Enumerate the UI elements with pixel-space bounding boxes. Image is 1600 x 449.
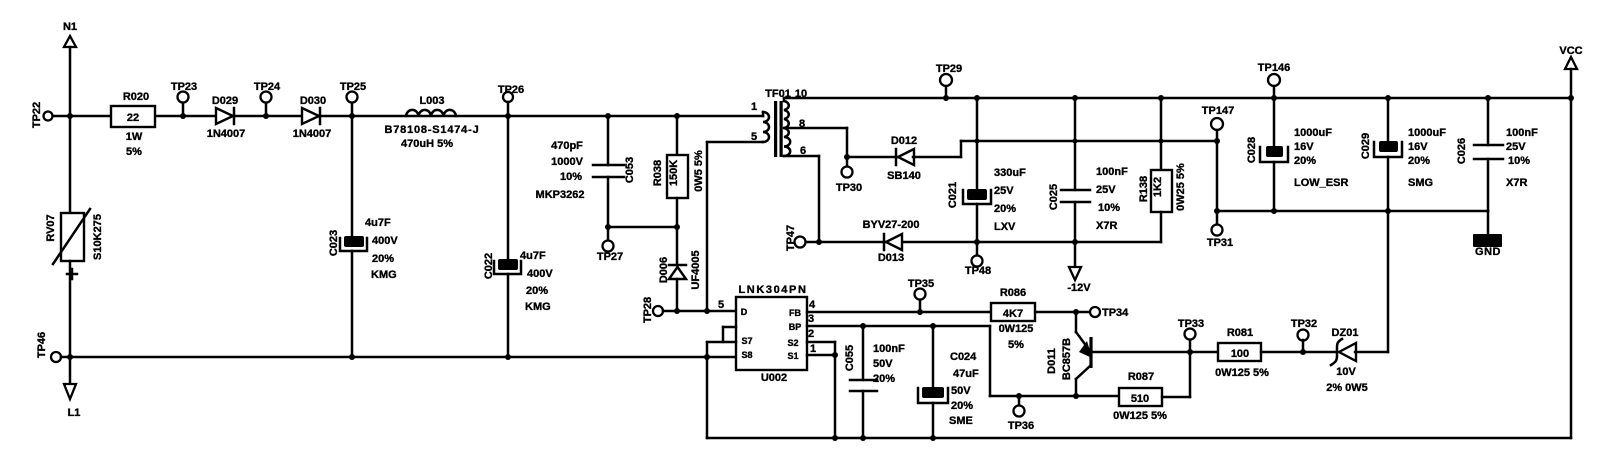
svg-text:R020: R020 [123, 91, 149, 103]
svg-text:20%: 20% [994, 203, 1016, 215]
svg-text:150K: 150K [668, 160, 680, 186]
svg-text:GND: GND [1475, 246, 1501, 258]
svg-text:TP34: TP34 [1102, 307, 1129, 319]
svg-text:TP36: TP36 [1008, 420, 1034, 432]
svg-text:C028: C028 [1246, 137, 1258, 163]
capacitor C022 4u7F 400V [483, 116, 553, 357]
svg-text:TP32: TP32 [1291, 318, 1317, 330]
svg-text:47uF: 47uF [953, 368, 979, 380]
test point TP26 [498, 84, 524, 119]
svg-text:TP30: TP30 [836, 182, 862, 194]
svg-text:0W5 5%: 0W5 5% [693, 150, 705, 192]
svg-text:0W25 5%: 0W25 5% [1175, 163, 1187, 211]
test point TP32 [1291, 318, 1317, 352]
svg-text:X7R: X7R [1096, 220, 1117, 232]
node N1 [63, 21, 77, 47]
inductor L003 B78108-S1474-J 470uH [385, 95, 480, 150]
svg-text:D030: D030 [300, 95, 326, 107]
svg-text:0W125 5%: 0W125 5% [1113, 410, 1167, 422]
svg-text:BYV27-200: BYV27-200 [863, 219, 920, 231]
svg-text:C025: C025 [1048, 184, 1060, 210]
svg-text:100nF: 100nF [873, 343, 905, 355]
svg-text:SMG: SMG [1408, 177, 1433, 189]
wire S2 S1 leads [807, 342, 838, 438]
svg-text:TP146: TP146 [1258, 62, 1290, 74]
svg-text:0W125 5%: 0W125 5% [1215, 367, 1269, 379]
svg-text:C026: C026 [1456, 138, 1468, 164]
svg-text:470uH 5%: 470uH 5% [401, 138, 453, 150]
capacitor C029 1000uF SMG [1360, 98, 1446, 211]
diode D012 SB140 [847, 135, 961, 182]
diode D013 BYV27-200 [863, 219, 920, 264]
svg-text:1: 1 [810, 343, 816, 355]
svg-text:1000uF: 1000uF [1408, 127, 1446, 139]
capacitor C025 100nF X7R [1048, 98, 1128, 242]
capacitor C024 47uF SME [918, 326, 979, 438]
capacitor C053 470pF MKP3262 [536, 113, 636, 227]
svg-text:MKP3262: MKP3262 [536, 189, 585, 201]
wire secondary pin6 tap [784, 156, 819, 242]
svg-text:400V: 400V [372, 235, 398, 247]
wire transformer pin5 [707, 142, 763, 311]
svg-text:10%: 10% [1098, 202, 1120, 214]
test point TP30 [836, 154, 862, 194]
svg-text:SME: SME [949, 415, 973, 427]
test point TP28 [642, 297, 663, 323]
svg-text:C055: C055 [844, 345, 856, 371]
test point TP46 [36, 332, 61, 362]
capacitor C021 330uF 25V LXV [947, 98, 1026, 242]
svg-text:5: 5 [718, 299, 724, 311]
svg-text:2: 2 [808, 328, 814, 340]
test point TP25 [340, 81, 366, 119]
svg-text:S1: S1 [787, 351, 798, 361]
svg-text:0W125: 0W125 [999, 323, 1034, 335]
svg-text:TP29: TP29 [936, 63, 962, 75]
svg-text:20%: 20% [1294, 155, 1316, 167]
svg-text:400V: 400V [527, 268, 553, 280]
wire R081 to DZ01 [1261, 349, 1336, 355]
zener diode DZ01 10V [1326, 327, 1388, 394]
wire secondary pin8 tap [784, 128, 847, 157]
svg-text:1W: 1W [126, 131, 143, 143]
svg-text:U002: U002 [761, 372, 787, 384]
transformer TF01 [751, 88, 807, 157]
wire -12V rail [806, 239, 1161, 245]
svg-text:N1: N1 [63, 21, 77, 33]
wire bottom rail [707, 435, 1571, 441]
svg-text:TP48: TP48 [965, 265, 991, 277]
svg-text:FB: FB [789, 308, 801, 318]
svg-text:1K2: 1K2 [1152, 177, 1164, 197]
svg-text:R081: R081 [1227, 327, 1253, 339]
wire D012 output rail [961, 139, 1218, 158]
svg-text:TP46: TP46 [36, 332, 48, 358]
svg-text:TP22: TP22 [31, 102, 43, 128]
resistor R087 510 [1113, 371, 1167, 422]
svg-text:C023: C023 [328, 230, 340, 256]
test point TP23 [171, 81, 197, 119]
svg-text:5%: 5% [1008, 339, 1024, 351]
svg-text:25V: 25V [1506, 141, 1526, 153]
svg-text:C021: C021 [947, 182, 959, 208]
svg-text:50V: 50V [873, 358, 893, 370]
svg-text:22: 22 [127, 112, 139, 124]
capacitor C023 4u7F 400V [328, 116, 398, 357]
svg-text:10%: 10% [560, 171, 582, 183]
test point TP36 [1008, 396, 1034, 432]
wire BP lower node [990, 393, 1119, 399]
svg-text:5%: 5% [126, 146, 142, 158]
svg-text:S8: S8 [741, 350, 752, 360]
svg-text:3: 3 [808, 313, 814, 325]
svg-text:LOW_ESR: LOW_ESR [1294, 177, 1348, 189]
test point TP24 [254, 81, 281, 119]
varistor RV07 S10K275 [45, 116, 104, 357]
svg-text:R087: R087 [1128, 371, 1154, 383]
svg-text:16V: 16V [1294, 141, 1314, 153]
wire DZ01 to ground rail [1387, 211, 1390, 352]
svg-text:1N4007: 1N4007 [207, 128, 246, 140]
resistor R081 100 [1215, 327, 1269, 379]
svg-text:BC857B: BC857B [1061, 338, 1073, 380]
test point TP33 [1178, 318, 1204, 340]
svg-text:D013: D013 [878, 252, 904, 264]
svg-text:L003: L003 [419, 95, 444, 107]
test point TP48 [965, 242, 991, 277]
svg-text:D011: D011 [1046, 348, 1058, 374]
svg-text:16V: 16V [1408, 141, 1428, 153]
resistor R020 [111, 91, 155, 158]
wire FB node [807, 309, 1090, 315]
svg-text:100: 100 [1231, 348, 1249, 360]
svg-text:10%: 10% [1508, 155, 1530, 167]
test point TP22 [31, 102, 53, 128]
svg-text:TP31: TP31 [1207, 237, 1233, 249]
svg-text:470pF: 470pF [551, 140, 583, 152]
svg-text:SB140: SB140 [887, 170, 921, 182]
svg-text:20%: 20% [1408, 155, 1430, 167]
svg-text:50V: 50V [951, 385, 971, 397]
resistor R038 150K [652, 113, 705, 227]
svg-text:L1: L1 [68, 407, 81, 419]
test point TP31 [1207, 211, 1233, 249]
svg-text:UF4005: UF4005 [690, 250, 702, 289]
svg-text:4u7F: 4u7F [520, 250, 546, 262]
node -12V [1067, 242, 1091, 294]
svg-text:DZ01: DZ01 [1332, 327, 1359, 339]
svg-text:KMG: KMG [371, 269, 397, 281]
IC U002 LNK304PN [718, 284, 816, 384]
resistor R086 4K7 [991, 287, 1035, 351]
wire N1 vertical [67, 47, 73, 119]
wire VCC top rail [784, 95, 1571, 101]
test point TP47 [785, 225, 806, 251]
test point TP35 [908, 278, 934, 312]
svg-text:R038: R038 [652, 160, 664, 186]
capacitor C055 100nF [844, 326, 905, 438]
svg-text:LNK304PN: LNK304PN [738, 284, 807, 296]
svg-text:B78108-S1474-J: B78108-S1474-J [385, 124, 480, 136]
svg-text:1000uF: 1000uF [1294, 127, 1332, 139]
svg-text:2% 0W5: 2% 0W5 [1326, 382, 1368, 394]
svg-text:330uF: 330uF [994, 167, 1026, 179]
svg-text:10V: 10V [1336, 366, 1356, 378]
test point TP27 [597, 227, 623, 263]
transistor D011 BC857B [1046, 312, 1093, 396]
diode D030 1N4007 [293, 95, 332, 140]
svg-text:510: 510 [1131, 393, 1149, 405]
diode D006 UF4005 [658, 227, 702, 311]
svg-text:100nF: 100nF [1096, 166, 1128, 178]
svg-text:R086: R086 [1000, 287, 1026, 299]
svg-text:C053: C053 [624, 157, 636, 183]
svg-text:D029: D029 [212, 95, 238, 107]
wire bottom return rail [61, 354, 736, 360]
resistor R138 1K2 [1138, 98, 1187, 242]
svg-text:X7R: X7R [1506, 177, 1527, 189]
svg-text:-12V: -12V [1067, 282, 1091, 294]
svg-text:D: D [741, 307, 748, 317]
svg-text:1000V: 1000V [551, 156, 583, 168]
svg-text:LXV: LXV [994, 221, 1016, 233]
node L1 [64, 357, 80, 419]
svg-text:4K7: 4K7 [1003, 308, 1023, 320]
node VCC [1559, 45, 1582, 69]
ground [1473, 211, 1502, 258]
svg-text:20%: 20% [526, 285, 548, 297]
wire VCC right vertical [1568, 69, 1574, 438]
wire ground rail [1214, 208, 1488, 214]
svg-text:1N4007: 1N4007 [293, 128, 332, 140]
svg-text:S7: S7 [741, 336, 752, 346]
svg-text:25V: 25V [1096, 184, 1116, 196]
svg-text:S10K275: S10K275 [92, 214, 104, 260]
test point TP146 [1258, 62, 1290, 146]
wire pin6 S7 S8 leads [707, 327, 736, 438]
svg-text:1: 1 [751, 101, 757, 113]
svg-text:BP: BP [789, 322, 802, 332]
svg-text:TP147: TP147 [1202, 105, 1234, 117]
wire drain node [663, 308, 736, 314]
svg-text:5: 5 [751, 131, 757, 143]
wire BP node [807, 323, 990, 396]
diode D029 1N4007 [207, 95, 246, 140]
svg-text:20%: 20% [951, 400, 973, 412]
wire junction row [605, 224, 680, 230]
svg-text:100nF: 100nF [1506, 127, 1538, 139]
svg-text:20%: 20% [372, 253, 394, 265]
test point TP34 [1090, 307, 1129, 319]
svg-text:KMG: KMG [525, 301, 551, 313]
wire R087 to TP33 [1162, 339, 1193, 397]
svg-text:TP27: TP27 [597, 251, 623, 263]
svg-text:25V: 25V [994, 185, 1014, 197]
capacitor C028 1000uF LOW_ESR [1246, 127, 1348, 211]
svg-text:4: 4 [809, 299, 816, 311]
svg-text:R138: R138 [1138, 176, 1150, 202]
wire main rail left [53, 115, 763, 118]
svg-text:C029: C029 [1360, 133, 1372, 159]
test point TP147 [1202, 105, 1234, 211]
svg-text:4u7F: 4u7F [365, 217, 391, 229]
svg-text:C024: C024 [950, 351, 977, 363]
test point TP29 [936, 63, 962, 98]
svg-text:D012: D012 [891, 135, 917, 147]
svg-text:RV07: RV07 [45, 214, 57, 241]
capacitor C026 100nF X7R [1456, 98, 1538, 211]
wire base feedback node [1091, 351, 1218, 354]
svg-text:20%: 20% [873, 373, 895, 385]
svg-text:S2: S2 [787, 338, 798, 348]
